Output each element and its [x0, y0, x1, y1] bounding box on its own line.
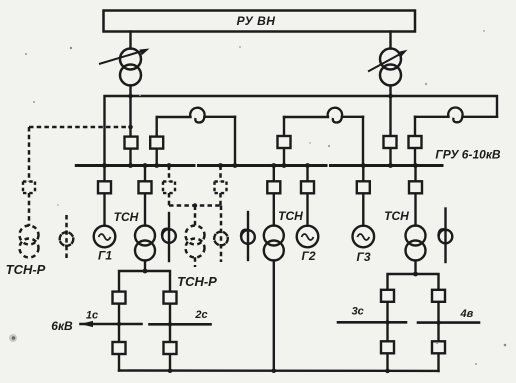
svg-text:4в: 4в	[460, 308, 474, 320]
svg-text:Г2: Г2	[301, 249, 315, 263]
svg-text:ТСН: ТСН	[278, 209, 303, 223]
svg-text:ТСН: ТСН	[384, 209, 409, 223]
svg-text:Г3: Г3	[356, 250, 370, 264]
svg-text:ТСН-Р: ТСН-Р	[177, 274, 217, 289]
svg-text:1с: 1с	[86, 310, 98, 322]
svg-text:3с: 3с	[352, 306, 364, 318]
svg-text:2с: 2с	[194, 309, 207, 321]
svg-text:Г1: Г1	[98, 249, 112, 263]
svg-text:6кВ: 6кВ	[51, 319, 73, 333]
svg-text:ТСН: ТСН	[114, 210, 139, 224]
svg-text:РУ ВН: РУ ВН	[237, 14, 276, 28]
svg-text:ТСН-Р: ТСН-Р	[6, 262, 46, 277]
svg-text:ГРУ 6-10кВ: ГРУ 6-10кВ	[435, 148, 500, 162]
